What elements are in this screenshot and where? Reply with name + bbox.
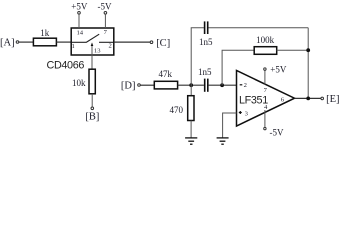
- wire R1 to U1: [56, 41, 71, 43]
- wire output to E: [295, 97, 322, 99]
- plus input sign: [239, 112, 242, 114]
- wire R3 to node X: [178, 84, 204, 86]
- svg-text:+5V: +5V: [270, 65, 287, 75]
- wire op-amp V+: [264, 70, 266, 84]
- svg-text:2: 2: [244, 82, 247, 89]
- terminal B: [91, 107, 94, 110]
- wire C1 to output column: [209, 27, 309, 29]
- terminal A: [16, 41, 19, 44]
- svg-text:2: 2: [108, 43, 111, 50]
- ground 2: [217, 138, 229, 144]
- svg-text:[C]: [C]: [156, 38, 170, 49]
- wire node X up to feedback cap branch: [191, 28, 204, 85]
- op-amp +5V terminal: [264, 68, 266, 70]
- svg-text:47k: 47k: [158, 69, 172, 79]
- wire node Y up to 100k branch: [222, 50, 254, 85]
- terminal E: [321, 97, 324, 100]
- switch left contact: [72, 41, 86, 43]
- switch right contact: [99, 41, 114, 43]
- op-amp -5V terminal: [264, 127, 266, 129]
- resistor R5 100k: [254, 35, 277, 55]
- op-amp U2 LF351: [237, 71, 295, 127]
- svg-text:+5V: +5V: [71, 2, 88, 12]
- control arrow pin 13: [91, 42, 94, 55]
- capacitor C1 1n5 (feedback): [199, 21, 213, 46]
- svg-text:[D]: [D]: [121, 81, 136, 92]
- wire pin 13 to R2: [91, 55, 93, 69]
- wire +5V to pin 14: [78, 14, 80, 28]
- svg-text:100k: 100k: [256, 35, 275, 45]
- wire A to R1: [19, 41, 33, 43]
- resistor R1 1k: [33, 28, 56, 46]
- svg-text:10k: 10k: [72, 78, 86, 88]
- wire -5V to pin 7: [104, 14, 106, 28]
- svg-text:-5V: -5V: [270, 128, 284, 138]
- ground 1: [185, 138, 197, 144]
- svg-text:[E]: [E]: [326, 94, 339, 105]
- svg-text:1k: 1k: [40, 28, 50, 38]
- feedback column wire: [307, 28, 309, 99]
- wire R5 to output column: [277, 49, 309, 51]
- svg-text:470: 470: [170, 105, 184, 115]
- svg-text:14: 14: [77, 29, 84, 36]
- svg-text:1: 1: [72, 43, 75, 50]
- wire C2 to op-amp inverting input: [209, 84, 237, 86]
- svg-text:13: 13: [94, 48, 101, 55]
- wire R4 to ground: [190, 121, 192, 138]
- junction 100k/column: [306, 48, 310, 52]
- junction output/feedback: [306, 97, 310, 101]
- wire node X down to R4: [190, 85, 192, 96]
- resistor R3 47k: [154, 69, 177, 89]
- terminal D: [138, 84, 141, 87]
- wire op-amp V-: [264, 110, 266, 127]
- terminal C: [150, 41, 153, 44]
- svg-text:-5V: -5V: [98, 2, 112, 12]
- svg-text:[B]: [B]: [85, 112, 99, 123]
- wire R2 to B: [91, 94, 93, 107]
- wire U1 to C: [114, 41, 150, 43]
- supply -5V terminal: [104, 12, 107, 15]
- svg-text:1n5: 1n5: [198, 67, 212, 77]
- junction node X: [189, 83, 193, 87]
- svg-text:CD4066: CD4066: [47, 59, 85, 71]
- minus input sign: [240, 84, 243, 86]
- svg-text:1n5: 1n5: [199, 37, 213, 47]
- supply +5V terminal: [78, 12, 81, 15]
- svg-text:[A]: [A]: [0, 38, 15, 49]
- wire D to R3: [140, 84, 154, 86]
- IC U1 CD4066 box: [71, 28, 114, 55]
- capacitor C2 1n5 (series): [198, 67, 212, 92]
- resistor R4 470: [170, 96, 195, 121]
- junction node Y: [220, 83, 224, 87]
- wire non-inverting input to ground: [223, 113, 237, 138]
- switch blade (open): [86, 34, 99, 42]
- resistor R2 10k: [72, 69, 95, 94]
